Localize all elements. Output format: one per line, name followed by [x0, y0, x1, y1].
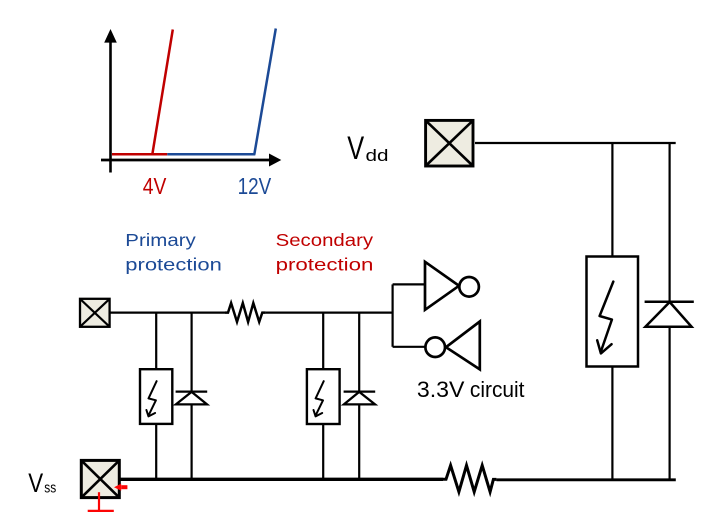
- svg-text:12V: 12V: [238, 173, 272, 199]
- svg-text:4V: 4V: [143, 173, 167, 199]
- svg-text:ss: ss: [44, 480, 56, 497]
- svg-text:dd: dd: [366, 146, 389, 165]
- svg-text:V: V: [347, 130, 364, 166]
- svg-text:Secondary: Secondary: [276, 230, 374, 250]
- svg-text:Primary: Primary: [125, 230, 196, 250]
- svg-text:circuit: circuit: [470, 377, 525, 402]
- svg-text:protection: protection: [125, 254, 222, 274]
- svg-text:protection: protection: [276, 254, 374, 274]
- svg-text:3.3V: 3.3V: [417, 377, 465, 402]
- svg-text:V: V: [28, 468, 43, 498]
